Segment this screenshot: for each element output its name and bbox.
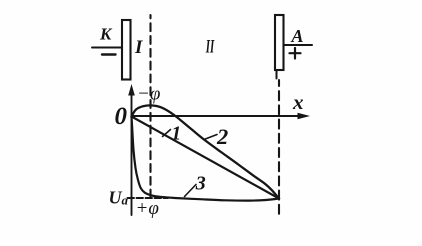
svg-text:II: II (205, 37, 214, 58)
plus sign (anode polarity) (290, 52, 301, 54)
svg-text:Ua: Ua (109, 188, 129, 208)
pointer line to curve 2 (204, 135, 217, 140)
svg-text:2: 2 (216, 124, 228, 149)
svg-text:0: 0 (115, 103, 128, 130)
svg-text:x: x (292, 90, 304, 114)
svg-text:I: I (134, 37, 143, 58)
dashed Ua level line (128, 197, 169, 199)
curve 1 (linear potential distribution) (132, 117, 280, 199)
y-axis (potential axis) (131, 93, 133, 215)
cathode lead wire (92, 47, 122, 49)
svg-text:K: K (99, 25, 113, 44)
y-axis arrowhead (128, 84, 135, 96)
svg-text:−φ: −φ (137, 84, 160, 105)
pointer line to curve 1 (163, 130, 171, 137)
pointer line to curve 3 (185, 185, 197, 197)
curve 2 (potential with maximum) (132, 105, 280, 198)
x-axis (132, 115, 301, 117)
x-axis arrowhead (298, 113, 311, 119)
svg-text:1: 1 (171, 123, 181, 145)
anode lead wire (284, 44, 312, 46)
electrode K (cathode plate) (122, 20, 131, 80)
svg-text:+φ: +φ (136, 198, 159, 219)
electrode A (anode plate) (275, 15, 284, 70)
dashed anode position line (278, 80, 280, 216)
minus sign (cathode polarity) (102, 53, 116, 55)
anode plate lower stub (276, 70, 278, 79)
curve 3 (sheath potential drop) (132, 117, 280, 201)
svg-text:A: A (291, 26, 304, 46)
svg-text:3: 3 (195, 173, 206, 195)
dashed boundary line between regions I and II (149, 15, 151, 200)
